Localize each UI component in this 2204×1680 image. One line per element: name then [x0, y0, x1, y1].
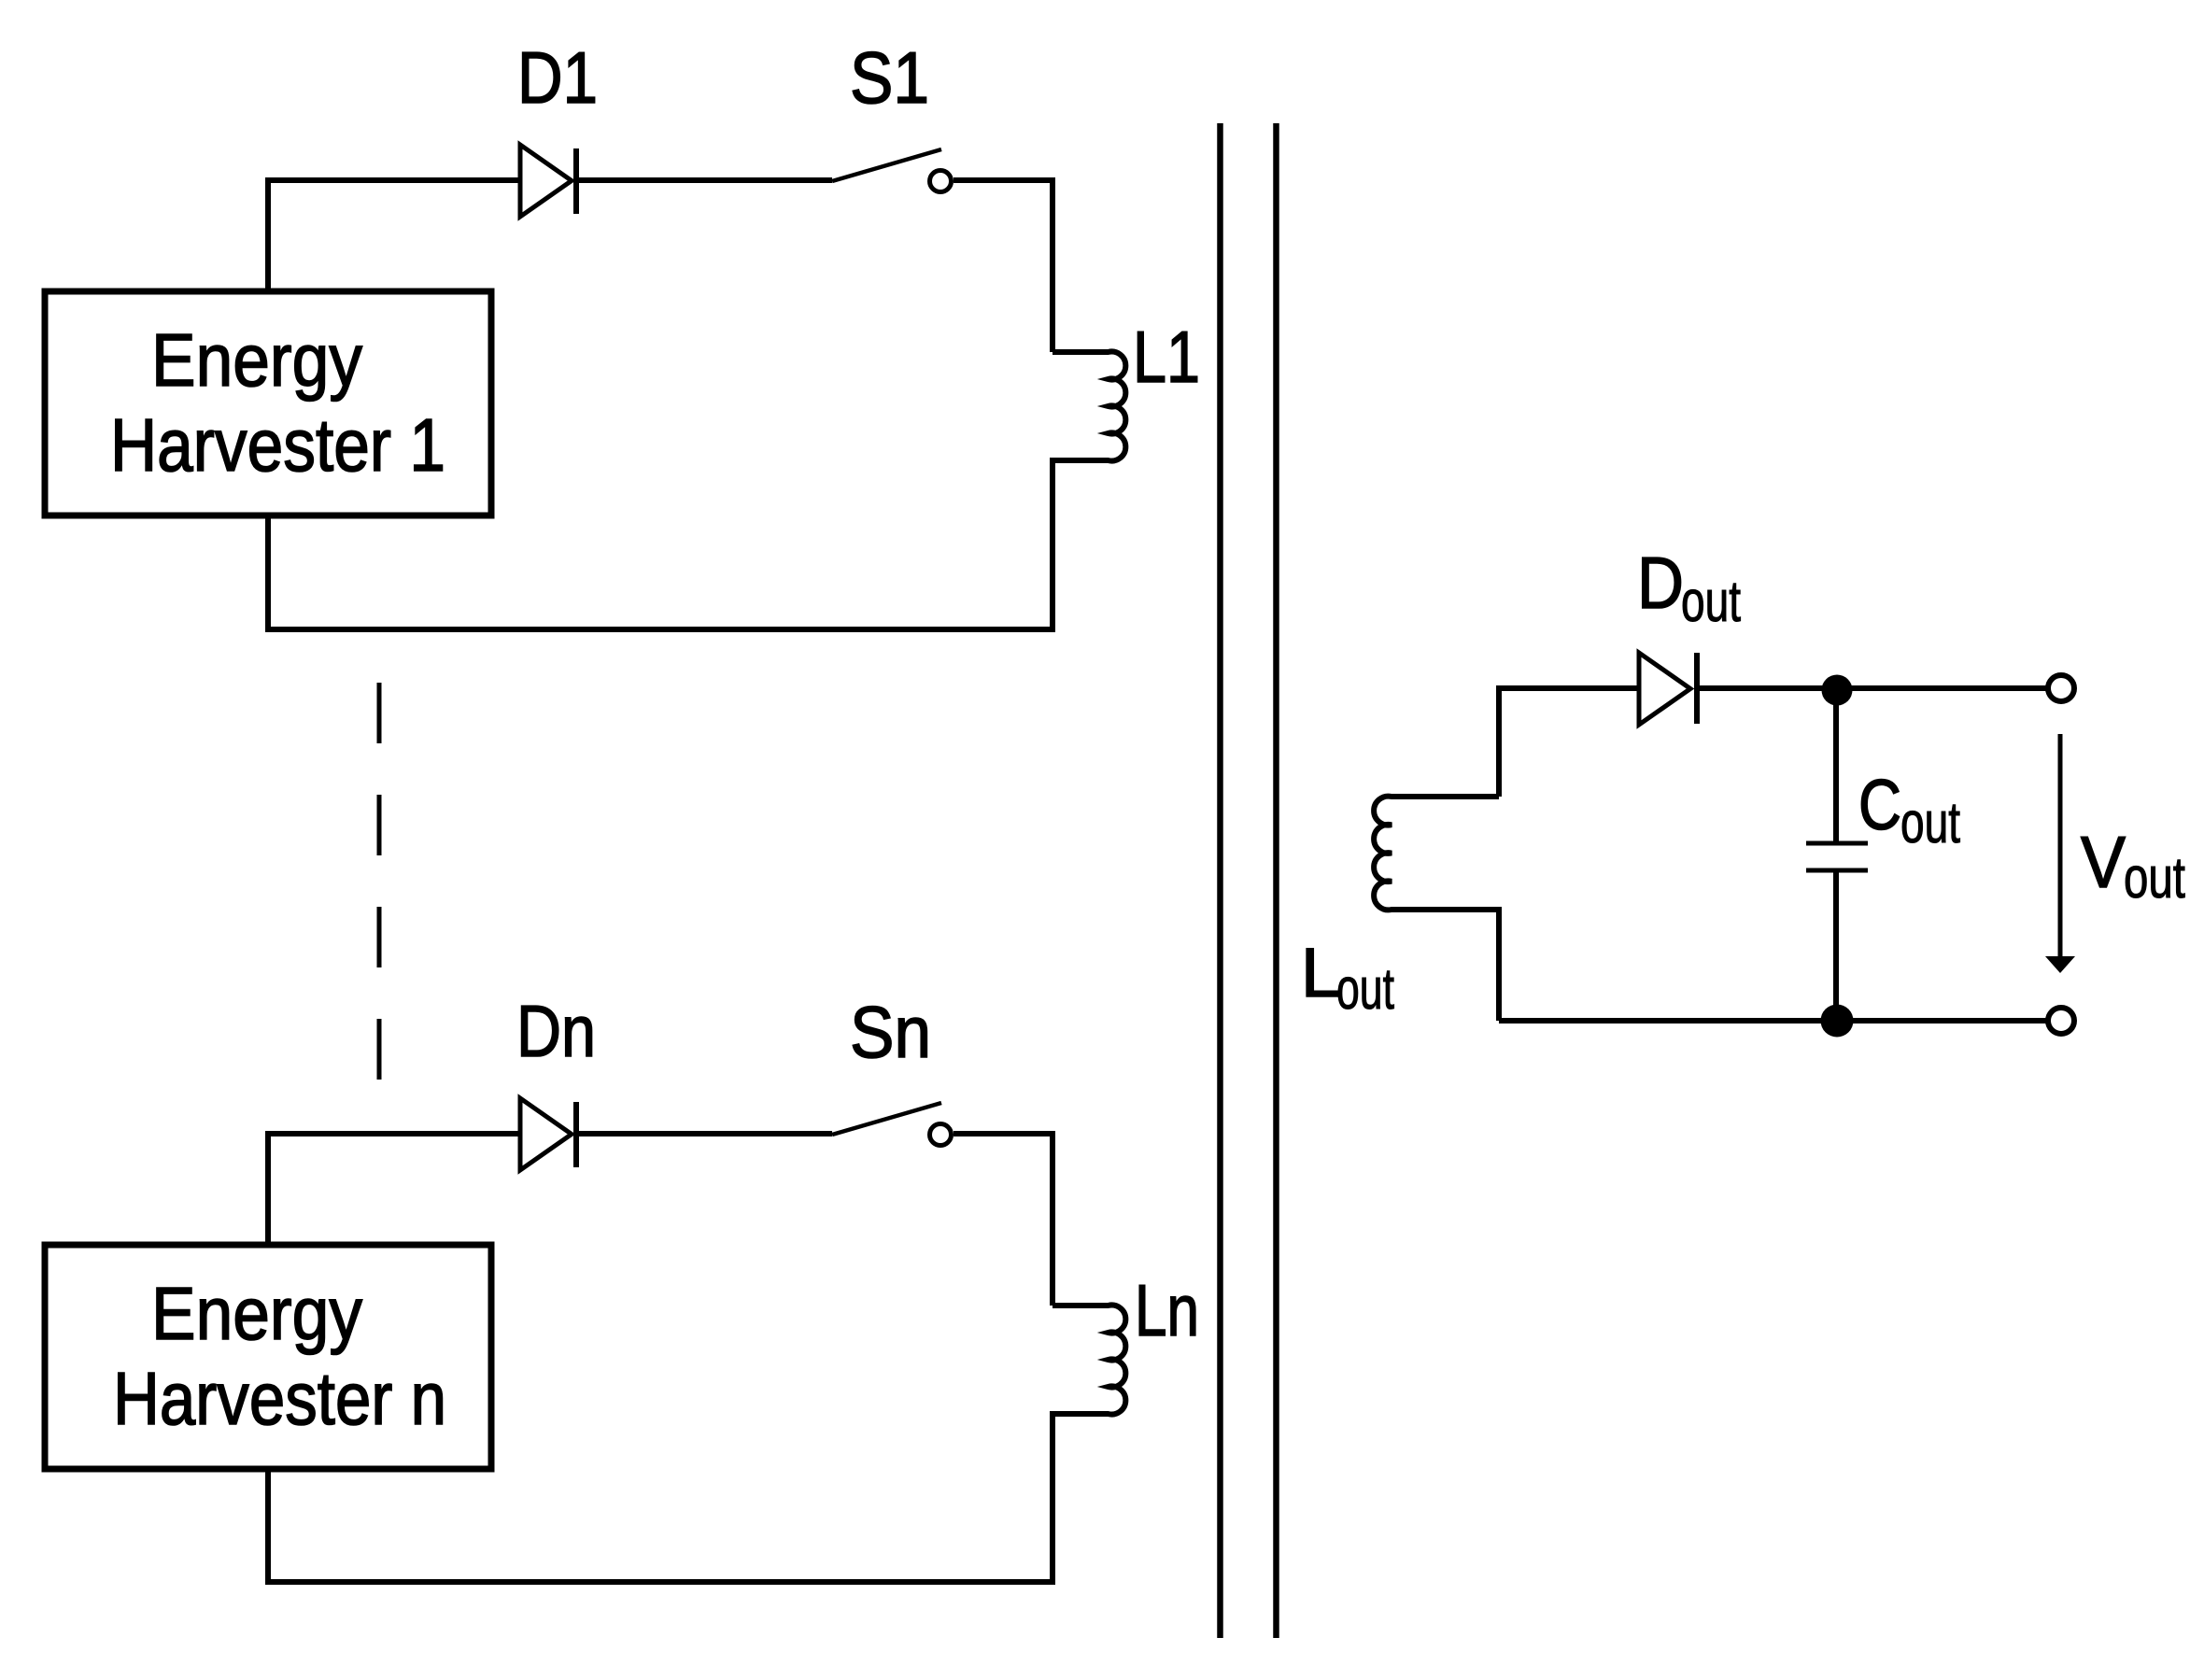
svg-text:Sn: Sn	[850, 991, 931, 1073]
svg-text:out: out	[1681, 570, 1741, 634]
svg-text:Harvester 1: Harvester 1	[110, 403, 445, 487]
svg-text:V: V	[2081, 821, 2126, 903]
svg-text:Energy: Energy	[151, 318, 362, 402]
svg-text:D1: D1	[517, 36, 598, 119]
svg-text:S1: S1	[850, 36, 929, 119]
svg-text:D: D	[1637, 542, 1684, 624]
svg-text:L1: L1	[1133, 316, 1200, 398]
svg-text:out: out	[1900, 791, 1960, 855]
svg-text:out: out	[2124, 846, 2185, 911]
svg-text:Harvester n: Harvester n	[113, 1357, 446, 1440]
svg-text:C: C	[1858, 766, 1901, 845]
svg-text:Ln: Ln	[1135, 1269, 1199, 1351]
svg-text:Dn: Dn	[516, 990, 596, 1072]
svg-text:L: L	[1301, 934, 1340, 1011]
svg-text:out: out	[1336, 957, 1394, 1022]
svg-text:Energy: Energy	[151, 1272, 362, 1355]
